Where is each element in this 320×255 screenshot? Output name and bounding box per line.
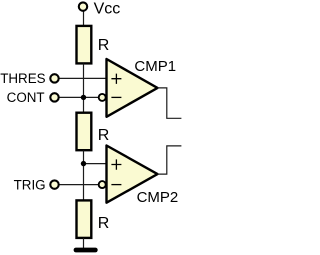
wire CONT to CMP1 minus bubble: [59, 96, 98, 98]
wire CMP1 output: [158, 88, 182, 118]
wire Vcc to R1: [83, 12, 85, 26]
wire CMP2 output: [158, 146, 182, 174]
pin bubble CMP1 inverting input: [99, 94, 106, 101]
pin minus sign CMP2: [111, 184, 121, 186]
ground: [76, 248, 95, 253]
pin plus sign CMP1: [111, 74, 121, 84]
svg-text:R: R: [98, 127, 110, 144]
wire THRES to CMP1 plus input: [59, 77, 107, 79]
svg-text:R: R: [98, 37, 110, 54]
resistor R1: [77, 26, 92, 64]
svg-text:CMP1: CMP1: [134, 58, 176, 75]
terminal CONT: [50, 93, 58, 101]
wire R1 to R2: [83, 64, 85, 113]
svg-text:TRIG: TRIG: [14, 177, 46, 192]
op-amp U1 comparator CMP1: [99, 59, 158, 117]
pin minus sign CMP1: [111, 96, 121, 98]
svg-text:Vcc: Vcc: [94, 1, 121, 18]
svg-text:THRES: THRES: [0, 71, 45, 86]
wire TRIG to CMP2 minus bubble: [59, 184, 98, 186]
terminal TRIG: [50, 180, 58, 188]
pin plus sign CMP2: [111, 159, 121, 169]
svg-text:CONT: CONT: [7, 90, 45, 105]
resistor R3: [77, 200, 92, 238]
terminal THRES: [50, 74, 58, 82]
resistor R2: [77, 113, 92, 151]
svg-text:CMP2: CMP2: [137, 189, 179, 206]
wire R3 to ground: [83, 238, 85, 249]
terminal Vcc: [79, 2, 87, 10]
svg-text:R: R: [98, 215, 110, 232]
pin bubble CMP2 inverting input: [99, 181, 106, 188]
wire R2 to R3: [83, 151, 85, 201]
wire divider node to CMP2 plus input: [84, 163, 108, 165]
op-amp U2 comparator CMP2: [99, 146, 158, 203]
node junction divider R2 R3: [81, 161, 86, 166]
node junction CONT divider: [81, 95, 86, 100]
